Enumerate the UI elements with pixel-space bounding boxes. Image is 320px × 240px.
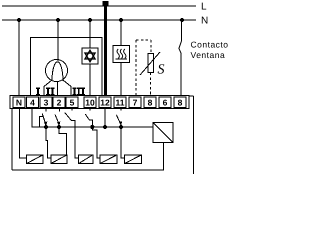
wire window contact to terminal 8b [180,54,182,97]
svg-text:12: 12 [100,98,110,108]
sensor S body [148,54,154,73]
svg-text:4: 4 [30,98,35,108]
relay common line [45,126,154,128]
wire terminal 4 down to relay line [32,109,45,128]
node dot on N at x=58 [56,18,60,22]
motor winding wire middle [57,82,59,97]
switch K4 blade [85,114,89,120]
svg-text:7: 7 [133,98,138,108]
terminal 3 [40,97,52,108]
svg-text:6: 6 [163,98,168,108]
wire N bus to heater box [120,20,122,46]
winding label I [36,88,40,96]
terminal 8b [174,97,186,108]
wire N bus to star box [89,20,91,48]
wire terminal 12 down to relay line [104,109,106,128]
wire heater to terminal 11 [120,63,122,97]
switch K1 stub from terminal 3 [45,109,47,112]
wire K3 to load R3 [71,121,78,158]
svg-text:8: 8 [148,98,153,108]
svg-text:2: 2 [57,98,62,108]
terminal N [13,97,25,108]
winding label III [73,88,86,96]
L bus [2,5,196,7]
node dot at 12 junction [103,125,107,129]
wire K1 to load R2 [46,127,51,158]
dashed wire to terminal 7 [135,40,137,96]
motor M1 circle [46,60,68,82]
node dot K5 [119,125,123,129]
star symbol [85,50,95,61]
terminal 12 [99,97,111,108]
terminal 2 [53,97,65,108]
switch K2 arrowhead [57,122,60,127]
wire star box to terminal 10 [89,64,91,96]
relay box diagonal [153,123,173,143]
svg-text:N: N [16,98,22,108]
wire right side drop [192,96,194,174]
terminal 8 [144,97,156,108]
svg-text:11: 11 [116,98,125,108]
sensor dashed enclosure [136,39,151,41]
node dot on N at x=121 [119,18,123,22]
svg-text:N: N [201,16,208,27]
load R2 [51,155,67,164]
wire N bus to window contact [181,20,183,41]
svg-text:10: 10 [85,98,95,108]
sensor diagonal [140,52,160,75]
node dot on N at x=19 [17,18,21,22]
terminal 7 [129,97,141,108]
switch K1 arrowhead [44,122,47,127]
load R1 [27,155,44,164]
switch K5 arrowhead [119,121,122,126]
svg-text:5: 5 [70,98,75,108]
node dot K4 [90,125,94,129]
wire relay box to bottom bus [163,143,165,171]
dashed wire sensor to terminal 8 [150,73,152,97]
node dot K1 [44,125,48,129]
wire N bus to motor circle top [57,20,59,61]
terminal 10 [84,97,96,108]
window contact switch blade [179,41,182,54]
node dot on N at x=90 [88,18,92,22]
motor winding wire I-II left leg [44,80,52,96]
relay box K6 [153,123,173,143]
wire thick L feed down to terminal 12 [104,2,107,96]
wire K2 to load R2 top [59,127,66,155]
node dot K2 [57,125,61,129]
wire left bus from strip to bottom [11,109,13,171]
motor M1 bell curve [52,62,63,81]
dashed sensor top lead [150,40,152,54]
svg-text:8: 8 [178,98,183,108]
controller outline box [31,38,103,96]
terminal strip outline [10,96,189,109]
load R5 [125,155,142,164]
terminal 5 [66,97,78,108]
switch K3 stub from terminal 5 [71,109,73,111]
switch K2 stub from terminal 2 [59,109,61,112]
wire terminal N down to load R1 [20,109,27,158]
svg-text:Contacto: Contacto [191,40,229,50]
motor winding wire right leg [63,80,71,96]
switch K1 side connector [40,117,43,128]
bottom bus [12,143,164,171]
switch K3 blade [65,113,72,121]
heater baseline [116,58,127,60]
switch K4 stub from terminal 10 [89,109,91,111]
heater box E1 [113,46,130,63]
svg-text:Ventana: Ventana [191,50,226,60]
switch K5 blade [116,115,120,124]
switch K2 blade [55,115,59,124]
switch K1 blade [42,114,46,125]
winding label II [46,88,55,96]
node square tap on L at x=105 [103,1,109,6]
load R4 [100,155,117,164]
terminal 11 [114,97,126,108]
N bus [2,19,196,21]
strip top edge extension [189,95,193,97]
node dot on N at x=182 [180,18,184,22]
terminal 4 [27,97,39,108]
load R3 [79,155,93,164]
wire N bus to terminal N [18,20,20,96]
svg-text:3: 3 [44,98,49,108]
heater squiggles [117,49,126,58]
svg-text:L: L [201,2,207,13]
wire K4 to load R4 [89,120,100,158]
svg-text:S: S [158,63,165,78]
wire K5 to load R5 [121,127,125,158]
lamp/star box U2 [82,48,98,64]
terminal 6 [159,97,171,108]
switch K5 stub from terminal 11 [120,109,122,111]
